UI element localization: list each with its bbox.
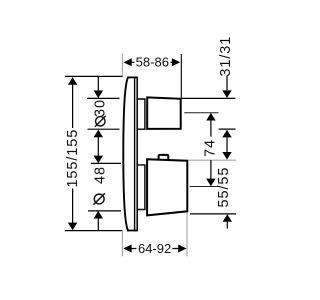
volume control cylinder (bottom, o48) — [137, 155, 187, 216]
dimension 31/31 — [218, 36, 234, 98]
knob axis line — [184, 112, 218, 114]
thermostat knob (top, o30) — [137, 97, 180, 129]
svg-text:30: 30 — [93, 99, 109, 117]
wall extension line bottom (gray vertical) — [121, 231, 123, 256]
svg-text:48: 48 — [92, 166, 108, 184]
knob bottom extension line right — [219, 128, 236, 130]
plate back curved edge — [123, 77, 128, 230]
plate top edge — [127, 76, 138, 78]
plate top extension line — [65, 75, 123, 77]
label o30 diameter symbol — [96, 117, 105, 126]
plate front line B — [136, 78, 138, 231]
dimension 155/155 — [65, 77, 81, 230]
dimension 64-92 — [123, 241, 186, 256]
extension line knob front (for 58-86) — [180, 54, 182, 99]
dimension 74 — [202, 113, 218, 186]
escutcheon plate side view — [123, 77, 138, 230]
cylinder bottom extension line right — [190, 213, 236, 215]
cylinder axis line — [190, 186, 219, 188]
label o48 diameter symbol — [94, 194, 104, 204]
knob bottom extension line left — [88, 128, 120, 130]
knob collar — [137, 99, 145, 129]
wall extension line top (gray vertical) — [121, 54, 123, 78]
cylinder top extension line right (gray) — [189, 159, 237, 161]
cylinder collar — [137, 165, 145, 210]
knob top extension line left — [87, 97, 120, 99]
svg-text:64-92: 64-92 — [138, 241, 171, 256]
tab on cylinder top — [159, 155, 169, 160]
dimension 55/55 — [216, 167, 232, 229]
dimension 58-86 — [123, 54, 180, 69]
plate bottom edge — [127, 230, 138, 232]
plate front line A — [134, 77, 136, 230]
cylinder top extension line left — [91, 162, 121, 164]
cylinder bottom extension line left — [88, 210, 121, 212]
cylinder body — [147, 159, 187, 215]
svg-text:155/155: 155/155 — [65, 129, 81, 188]
dimension o30 / o48 column — [92, 77, 108, 231]
svg-text:58-86: 58-86 — [136, 54, 169, 69]
svg-text:31/31: 31/31 — [218, 36, 234, 77]
svg-text:55/55: 55/55 — [216, 167, 232, 208]
plate bottom extension line — [65, 230, 123, 232]
arrows between knob-bottom and cylinder-top lines (31/31 partner + 55/55 top) — [222, 130, 231, 160]
svg-text:74: 74 — [202, 139, 218, 157]
knob body — [147, 97, 181, 128]
knob top extension line right — [181, 97, 235, 99]
extension line cylinder front (for 64-92, gray vertical) — [186, 213, 188, 257]
